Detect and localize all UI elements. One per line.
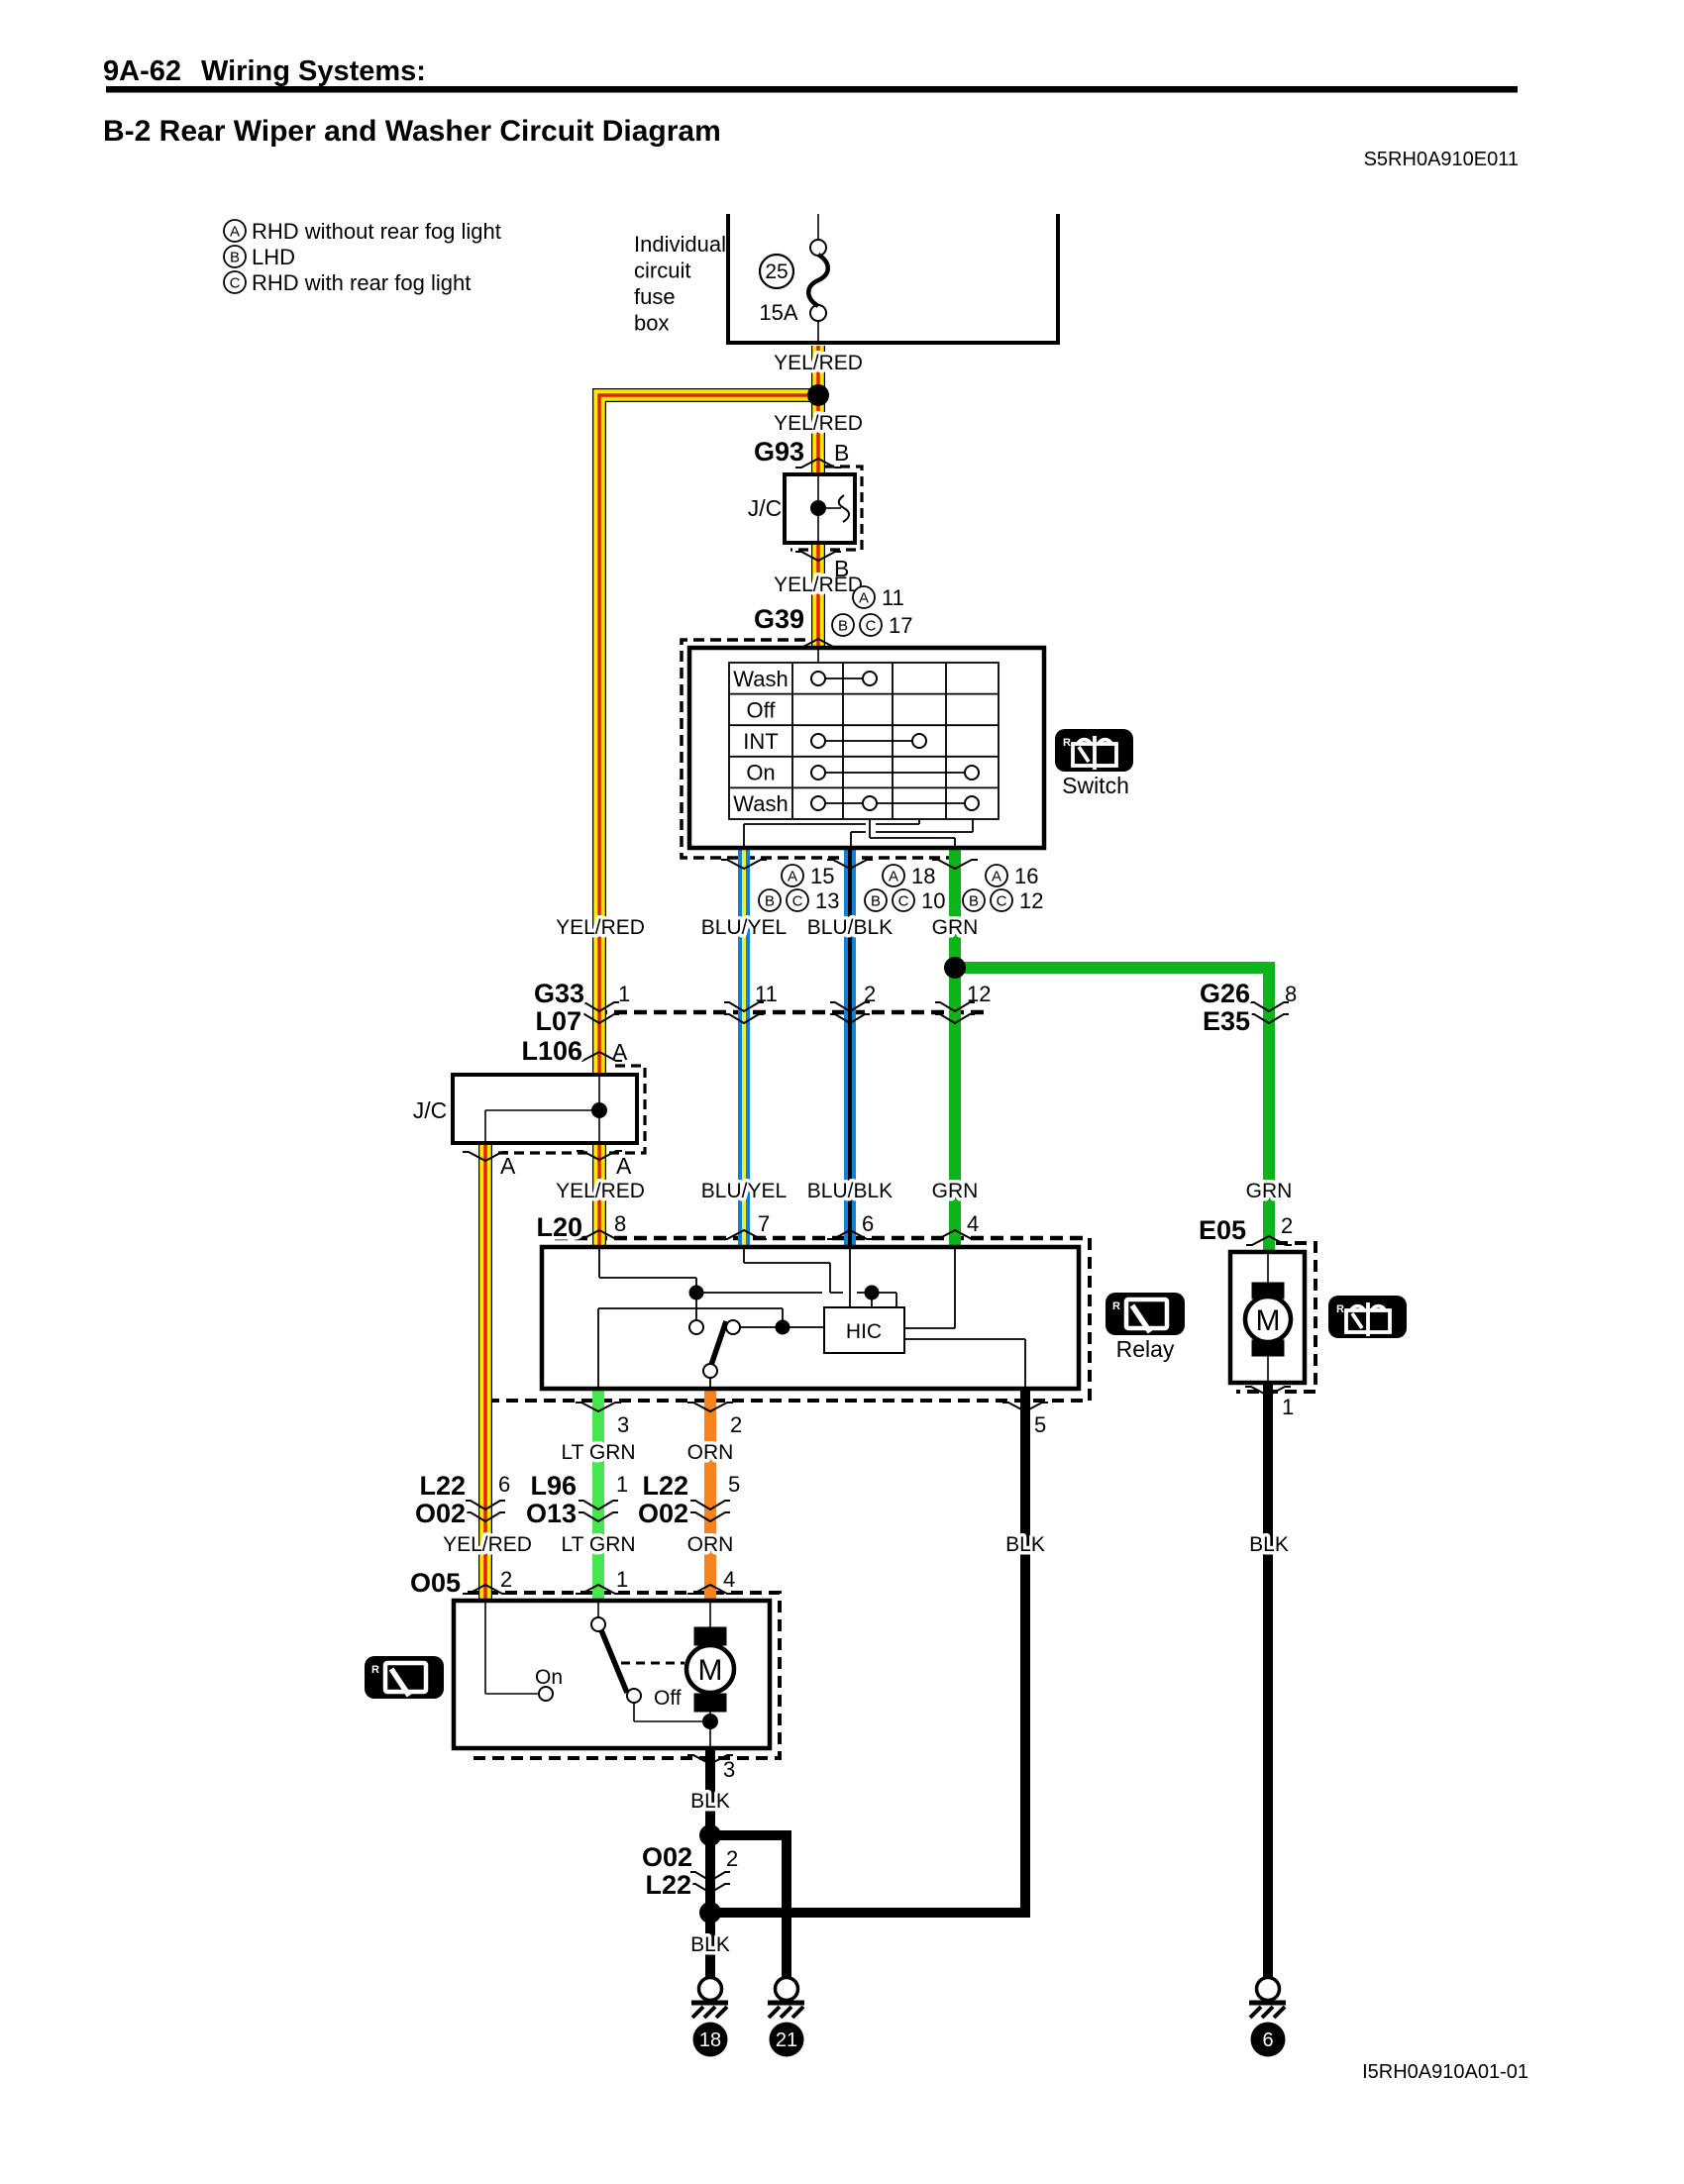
svg-text:B: B xyxy=(834,556,849,581)
svg-text:A: A xyxy=(612,1039,628,1065)
svg-text:On: On xyxy=(535,1666,563,1689)
svg-text:B: B xyxy=(838,617,848,634)
svg-text:7: 7 xyxy=(758,1211,770,1236)
svg-text:On: On xyxy=(746,761,775,785)
svg-text:YEL/RED: YEL/RED xyxy=(774,573,863,596)
svg-text:BLU/YEL: BLU/YEL xyxy=(701,1180,787,1202)
svg-text:G39: G39 xyxy=(754,604,804,634)
svg-text:6: 6 xyxy=(1262,2029,1273,2051)
svg-text:G33: G33 xyxy=(534,979,584,1008)
svg-text:YEL/RED: YEL/RED xyxy=(556,916,645,939)
svg-text:O05: O05 xyxy=(410,1568,461,1598)
svg-text:Wiring Systems:: Wiring Systems: xyxy=(201,55,426,87)
svg-text:YEL/RED: YEL/RED xyxy=(443,1533,532,1556)
svg-text:A: A xyxy=(230,223,240,240)
svg-text:L22: L22 xyxy=(642,1471,688,1501)
svg-text:R: R xyxy=(1336,1303,1344,1315)
svg-text:circuit: circuit xyxy=(634,259,690,283)
svg-text:YEL/RED: YEL/RED xyxy=(774,352,863,374)
svg-text:GRN: GRN xyxy=(932,916,979,939)
svg-text:16: 16 xyxy=(1014,864,1038,888)
svg-text:8: 8 xyxy=(1285,982,1297,1006)
svg-text:2: 2 xyxy=(500,1567,512,1592)
svg-text:1: 1 xyxy=(1282,1395,1294,1419)
svg-text:I5RH0A910A01-01: I5RH0A910A01-01 xyxy=(1362,2061,1528,2083)
svg-text:B: B xyxy=(871,892,881,909)
svg-text:18: 18 xyxy=(911,864,935,888)
svg-text:BLU/YEL: BLU/YEL xyxy=(701,916,787,939)
svg-text:2: 2 xyxy=(726,1846,738,1871)
svg-text:B: B xyxy=(765,892,775,909)
svg-text:R: R xyxy=(1063,737,1071,749)
svg-text:BLU/BLK: BLU/BLK xyxy=(807,916,893,939)
svg-text:C: C xyxy=(997,892,1007,909)
svg-text:E05: E05 xyxy=(1199,1215,1246,1245)
svg-text:HIC: HIC xyxy=(846,1320,882,1343)
svg-text:B: B xyxy=(230,249,240,265)
svg-text:L07: L07 xyxy=(535,1006,581,1036)
svg-text:17: 17 xyxy=(889,613,912,638)
svg-text:B: B xyxy=(834,440,849,466)
svg-text:1: 1 xyxy=(618,982,630,1006)
svg-text:L22: L22 xyxy=(419,1471,466,1501)
svg-text:GRN: GRN xyxy=(1246,1180,1293,1202)
svg-text:GRN: GRN xyxy=(932,1180,979,1202)
svg-text:B: B xyxy=(969,892,979,909)
svg-text:LHD: LHD xyxy=(252,245,295,269)
svg-text:9A-62: 9A-62 xyxy=(103,55,181,87)
svg-text:2: 2 xyxy=(864,982,876,1006)
svg-text:fuse: fuse xyxy=(634,284,676,309)
svg-text:O02: O02 xyxy=(415,1499,466,1528)
svg-text:A: A xyxy=(889,868,898,884)
svg-text:Off: Off xyxy=(747,698,777,723)
svg-text:Switch: Switch xyxy=(1062,773,1129,798)
svg-text:B-2 Rear Wiper and Washer Circ: B-2 Rear Wiper and Washer Circuit Diagra… xyxy=(103,115,721,148)
svg-text:L20: L20 xyxy=(536,1212,582,1242)
svg-text:3: 3 xyxy=(617,1412,629,1437)
svg-text:3: 3 xyxy=(723,1757,735,1782)
svg-text:Wash: Wash xyxy=(733,667,788,691)
svg-text:21: 21 xyxy=(776,2029,797,2051)
svg-text:LT GRN: LT GRN xyxy=(561,1441,635,1464)
svg-text:M: M xyxy=(698,1654,723,1687)
svg-text:C: C xyxy=(898,892,909,909)
svg-text:Off: Off xyxy=(654,1687,682,1710)
svg-text:10: 10 xyxy=(921,888,945,913)
svg-text:G26: G26 xyxy=(1200,979,1250,1008)
svg-text:E35: E35 xyxy=(1203,1006,1250,1036)
svg-text:R: R xyxy=(371,1664,379,1676)
svg-text:BLK: BLK xyxy=(1249,1533,1289,1556)
svg-text:A: A xyxy=(500,1153,516,1179)
svg-text:Relay: Relay xyxy=(1116,1336,1175,1362)
svg-text:S5RH0A910E011: S5RH0A910E011 xyxy=(1364,149,1519,170)
svg-text:12: 12 xyxy=(967,982,991,1006)
svg-text:A: A xyxy=(859,589,869,606)
svg-text:6: 6 xyxy=(862,1211,874,1236)
svg-text:C: C xyxy=(230,274,241,291)
svg-text:12: 12 xyxy=(1019,888,1043,913)
svg-text:11: 11 xyxy=(882,585,904,610)
svg-text:M: M xyxy=(1256,1304,1281,1337)
svg-text:L106: L106 xyxy=(521,1036,582,1066)
svg-text:BLK: BLK xyxy=(690,1790,730,1813)
svg-text:R: R xyxy=(1112,1300,1120,1312)
svg-text:1: 1 xyxy=(616,1472,628,1497)
svg-text:J/C: J/C xyxy=(748,495,783,521)
svg-text:O02: O02 xyxy=(638,1499,688,1528)
svg-text:LT GRN: LT GRN xyxy=(561,1533,635,1556)
svg-text:ORN: ORN xyxy=(687,1441,734,1464)
svg-text:INT: INT xyxy=(743,729,778,754)
svg-text:18: 18 xyxy=(699,2029,721,2051)
svg-text:5: 5 xyxy=(1034,1412,1046,1437)
svg-text:A: A xyxy=(992,868,1001,884)
svg-text:O02: O02 xyxy=(642,1842,692,1872)
svg-text:6: 6 xyxy=(498,1472,510,1497)
svg-text:ORN: ORN xyxy=(687,1533,734,1556)
svg-text:2: 2 xyxy=(730,1412,742,1437)
svg-text:15: 15 xyxy=(810,864,834,888)
svg-text:4: 4 xyxy=(967,1211,979,1236)
svg-text:J/C: J/C xyxy=(413,1097,448,1123)
svg-text:L22: L22 xyxy=(645,1870,691,1900)
svg-text:2: 2 xyxy=(1281,1213,1293,1238)
svg-text:L96: L96 xyxy=(530,1471,577,1501)
svg-text:13: 13 xyxy=(815,888,839,913)
svg-text:RHD with rear fog light: RHD with rear fog light xyxy=(252,270,471,295)
svg-text:YEL/RED: YEL/RED xyxy=(556,1180,645,1202)
svg-text:A: A xyxy=(788,868,797,884)
svg-text:box: box xyxy=(634,311,669,336)
svg-text:Individual: Individual xyxy=(634,232,726,257)
svg-text:A: A xyxy=(616,1153,632,1179)
svg-text:25: 25 xyxy=(765,260,788,283)
svg-text:5: 5 xyxy=(728,1472,740,1497)
svg-text:G93: G93 xyxy=(754,437,804,467)
svg-text:4: 4 xyxy=(723,1567,735,1592)
svg-text:C: C xyxy=(792,892,803,909)
svg-text:BLU/BLK: BLU/BLK xyxy=(807,1180,893,1202)
svg-text:1: 1 xyxy=(616,1567,628,1592)
svg-text:8: 8 xyxy=(614,1211,626,1236)
svg-text:BLK: BLK xyxy=(1005,1533,1045,1556)
svg-text:11: 11 xyxy=(755,982,778,1006)
svg-text:C: C xyxy=(866,617,877,634)
svg-text:Wash: Wash xyxy=(733,791,788,816)
svg-text:YEL/RED: YEL/RED xyxy=(774,412,863,435)
svg-text:15A: 15A xyxy=(759,300,797,325)
svg-text:O13: O13 xyxy=(526,1499,577,1528)
svg-text:RHD without rear fog light: RHD without rear fog light xyxy=(252,219,501,244)
svg-text:BLK: BLK xyxy=(690,1933,730,1956)
